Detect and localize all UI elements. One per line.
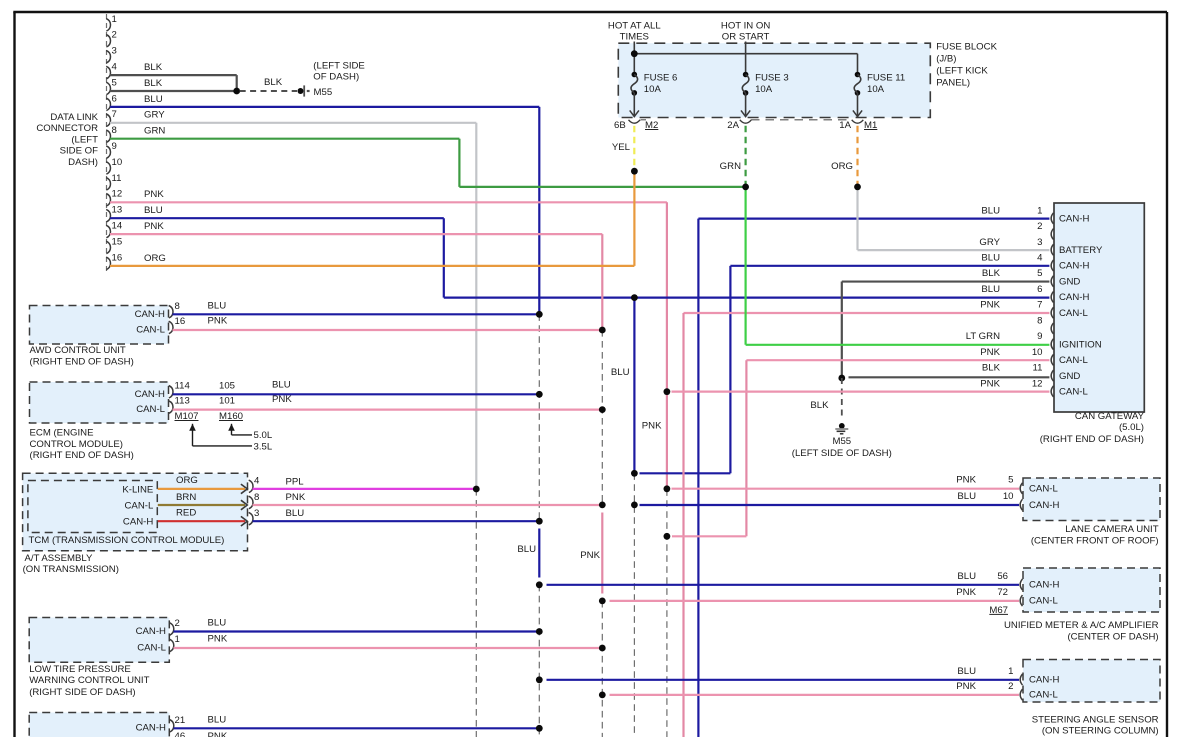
module box: LOW TIRE PRESSURE WARNING CONTROL UNIT (29, 618, 169, 663)
svg-text:PNK: PNK (956, 475, 976, 486)
label: LOW TIRE PRESSURE WARNING CONTROL UNIT (RIGHT SIDE OF DASH) (29, 664, 149, 698)
svg-text:1: 1 (1008, 666, 1013, 677)
svg-text:10: 10 (112, 157, 123, 168)
svg-text:113: 113 (175, 396, 190, 407)
svg-text:BLU: BLU (981, 284, 1000, 295)
svg-text:2: 2 (1037, 221, 1042, 232)
svg-text:CAN-L: CAN-L (1029, 690, 1058, 701)
svg-text:DATA LINK: DATA LINK (50, 112, 98, 123)
svg-text:10A: 10A (644, 84, 662, 95)
svg-text:1A: 1A (839, 120, 851, 131)
wire: feed from HOT AT ALL TIMES into fuse 6 (633, 42, 635, 75)
svg-text:LOW TIRE PRESSURE: LOW TIRE PRESSURE (29, 664, 131, 675)
steering pin arcs (1020, 674, 1022, 700)
unified meter wire color labels (956, 571, 976, 598)
DATA LINK CONNECTOR pin numbers 1-16 (112, 14, 123, 263)
svg-text:FUSE 3: FUSE 3 (755, 73, 789, 84)
svg-text:CAN-H: CAN-H (136, 626, 166, 637)
svg-text:11: 11 (112, 173, 122, 184)
wire: DLC pin 7 GRY horizontal (110, 122, 476, 124)
wire: TCM CAN-L BRN internal (158, 500, 248, 510)
svg-text:3: 3 (254, 508, 259, 519)
label: ORG (831, 161, 853, 172)
node: splice AWD CAN-H (536, 311, 543, 318)
svg-text:FUSE BLOCK: FUSE BLOCK (936, 41, 997, 52)
svg-text:DASH): DASH) (68, 157, 98, 168)
svg-text:5: 5 (112, 77, 117, 88)
wire: AWD CAN-H BLU (173, 313, 540, 315)
unified meter connector id M67 (989, 605, 1008, 616)
label: BLK (ground wire) (810, 400, 829, 411)
AWD pin labels (135, 309, 166, 336)
wire: low-tire CAN-L PNK (174, 647, 603, 649)
svg-text:CONTROL MODULE): CONTROL MODULE) (30, 439, 123, 450)
svg-text:PNK: PNK (208, 316, 228, 327)
wire: BLK vertical x=842 (841, 282, 843, 378)
label: FUSE BLOCK (J/B) (LEFT KICK PANEL) (936, 41, 997, 88)
svg-text:3: 3 (112, 46, 117, 57)
svg-text:(LEFT SIDE OF DASH): (LEFT SIDE OF DASH) (792, 448, 892, 459)
steering wire color labels (956, 666, 976, 692)
fuse block connector strip dashes (641, 119, 852, 121)
module box: TCM inner (28, 481, 157, 533)
svg-text:BLU: BLU (144, 205, 163, 216)
svg-text:(CENTER OF DASH): (CENTER OF DASH) (1067, 631, 1158, 642)
svg-text:FUSE 11: FUSE 11 (867, 73, 905, 84)
svg-text:PNK: PNK (144, 189, 164, 200)
module box: bottom module (clipped) (29, 713, 169, 737)
svg-text:4: 4 (254, 476, 260, 487)
wire: DLC pin 8 GRN horizontal (110, 138, 459, 140)
svg-text:PNK: PNK (980, 378, 1000, 389)
svg-text:PNK: PNK (286, 492, 306, 503)
wire: steering CAN-H BLU (547, 679, 1020, 681)
svg-text:4: 4 (112, 62, 118, 73)
label: UNIFIED METER & A/C AMPLIFIER (CENTER OF DASH) (1004, 620, 1159, 642)
svg-text:GND: GND (1059, 371, 1080, 382)
svg-text:BLK: BLK (144, 62, 163, 73)
steering pin labels (1029, 675, 1059, 701)
svg-text:M55: M55 (314, 87, 333, 98)
label: PNK (x=667 bus) (642, 420, 662, 431)
lane camera wire color labels (956, 475, 976, 502)
wire: GRY vertical x=476 (K-line) (475, 123, 477, 489)
ground symbol M55 (835, 423, 848, 434)
module box: AWD CONTROL UNIT (30, 306, 169, 345)
label: TCM (TRANSMISSION CONTROL MODULE) (29, 535, 225, 546)
svg-text:PNK: PNK (208, 634, 228, 645)
label: M55 (LEFT SIDE OF DASH) (792, 436, 892, 459)
svg-text:(RIGHT END OF DASH): (RIGHT END OF DASH) (30, 356, 134, 367)
svg-text:9: 9 (112, 141, 117, 152)
module box: LANE CAMERA UNIT (1023, 478, 1160, 521)
svg-text:RED: RED (176, 508, 196, 519)
node: splice ORG/GRY at (857.5,187) (854, 184, 861, 191)
svg-text:CAN-L: CAN-L (136, 325, 165, 336)
svg-text:4: 4 (1037, 253, 1043, 264)
svg-text:CAN-H: CAN-H (123, 516, 153, 527)
wire: BLK dashed to ground connector M55 (240, 90, 297, 92)
svg-text:10A: 10A (755, 84, 773, 95)
ECM pin numbers (175, 381, 236, 407)
svg-text:14: 14 (112, 221, 123, 232)
svg-text:5: 5 (1008, 475, 1013, 486)
svg-text:ORG: ORG (831, 161, 853, 172)
unified meter pin labels (1029, 580, 1059, 607)
node: splice TCM CAN-H (536, 518, 543, 525)
svg-text:A/T ASSEMBLY: A/T ASSEMBLY (25, 553, 93, 564)
node: junction at fuse block top rail (631, 50, 638, 57)
wire: ORG vertical x=634 up to fuse-6 splice (633, 171, 635, 266)
wire: BLU vertical x=444 (443, 218, 445, 297)
callout: 3.5L arrow to M107 (189, 424, 273, 453)
svg-text:(ON STEERING COLUMN): (ON STEERING COLUMN) (1042, 726, 1159, 737)
svg-text:(LEFT SIDE: (LEFT SIDE (313, 61, 365, 72)
node: splice steering CAN-H (536, 676, 543, 683)
wire: bottom module CAN-H BLU (174, 727, 540, 729)
svg-text:AWD CONTROL UNIT: AWD CONTROL UNIT (30, 345, 126, 356)
svg-text:CAN-L: CAN-L (136, 404, 165, 415)
callout: 5.0L arrow to M160 (228, 424, 273, 441)
svg-text:7: 7 (1037, 300, 1042, 311)
DATA LINK CONNECTOR pin cavity arcs 1-16 (106, 19, 110, 270)
label: YEL (612, 142, 631, 153)
svg-text:CAN-H: CAN-H (136, 723, 166, 734)
wire: BLU vertical x=730 (729, 266, 731, 473)
svg-text:SIDE OF: SIDE OF (60, 146, 99, 157)
svg-text:7: 7 (112, 109, 117, 120)
svg-text:BLK: BLK (264, 77, 283, 88)
svg-text:BLK: BLK (982, 268, 1001, 279)
svg-text:2A: 2A (727, 120, 739, 131)
bus dashes x=476 below K-line splice (475, 489, 477, 737)
svg-text:PNK: PNK (980, 300, 1000, 311)
svg-text:IGNITION: IGNITION (1059, 339, 1102, 350)
svg-text:BLK: BLK (982, 363, 1001, 374)
svg-text:BLU: BLU (957, 491, 976, 502)
wire: BLU segment on bus x=539 (TCM to meter) (538, 529, 540, 578)
wire: BLU vertical x=539 (pin6 down to AWD splice) (538, 107, 540, 314)
svg-text:ECM (ENGINE: ECM (ENGINE (30, 427, 94, 438)
label: HOT AT ALL TIMES (608, 21, 661, 43)
svg-text:BLU: BLU (208, 715, 227, 726)
label: BLU (x=634 bus) (611, 367, 630, 378)
A/T wire color labels (286, 476, 306, 519)
svg-text:GRN: GRN (720, 161, 741, 172)
CAN GATEWAY internal pin labels (1059, 214, 1103, 398)
wire: fuse block top rail to fuse 11 (634, 54, 857, 75)
module box: STEERING ANGLE SENSOR (1023, 660, 1160, 703)
wire: CAN GW pin9 LT GRN horizontal (IGNITION) (746, 344, 1050, 346)
svg-text:GND: GND (1059, 276, 1080, 287)
fuse block (J/B) dashed box (618, 43, 930, 117)
svg-text:12: 12 (1032, 378, 1043, 389)
svg-text:PNK: PNK (272, 394, 292, 405)
svg-text:2: 2 (175, 618, 180, 629)
fuse FUSE 6 10A (630, 72, 678, 117)
node: splice x=667 pin12 (664, 388, 671, 395)
wire: unified meter CAN-H BLU (547, 584, 1020, 586)
lane camera pin numbers (1003, 475, 1014, 502)
node: splice AWD CAN-L (599, 327, 606, 334)
svg-text:HOT AT ALL: HOT AT ALL (608, 21, 661, 32)
node: splice steering CAN-L (599, 692, 606, 699)
wire: YEL dashed from fuse 6 pin 6B (633, 126, 635, 169)
svg-text:6B: 6B (614, 120, 626, 131)
svg-text:(CENTER FRONT OF ROOF): (CENTER FRONT OF ROOF) (1031, 535, 1159, 546)
node: splice x=667 lane camera (664, 485, 671, 492)
svg-text:PNK: PNK (642, 420, 662, 431)
label: BRN (TCM) (176, 492, 196, 503)
svg-text:M160: M160 (219, 411, 243, 422)
svg-text:CAN GATEWAY: CAN GATEWAY (1075, 411, 1145, 422)
label: DATA LINK CONNECTOR (LEFT SIDE OF DASH) (36, 112, 98, 168)
wire: ECM CAN-H BLU (173, 393, 540, 395)
fuse FUSE 11 10A (853, 72, 905, 117)
wire: DLC pin 13 BLU horizontal (110, 217, 444, 219)
svg-text:PNK: PNK (144, 221, 164, 232)
svg-text:1: 1 (112, 14, 117, 25)
label: PNK (x=602 bus) (580, 550, 600, 561)
wire: TCM K-LINE ORG internal (158, 484, 248, 494)
label: BLU (x=539 bus) (517, 544, 536, 555)
svg-text:72: 72 (997, 587, 1008, 598)
svg-text:BLK: BLK (810, 400, 829, 411)
CAN GATEWAY wire color labels (966, 205, 1001, 389)
CAN GATEWAY pin cavity arcs 1-12 (1051, 213, 1053, 397)
svg-text:(RIGHT END OF DASH): (RIGHT END OF DASH) (1040, 434, 1144, 445)
bus dashes x=539 (538, 314, 540, 737)
node: splice unified meter CAN-L (599, 598, 606, 605)
wire: DLC pin 5 BLK to splice (110, 90, 237, 92)
node: BLK splice at (236.7,91.4) (233, 88, 240, 95)
fuse FUSE 3 10A (741, 72, 789, 117)
svg-text:CAN-H: CAN-H (1059, 214, 1089, 225)
wire: lane camera CAN-L PNK (672, 488, 1020, 490)
wire: low-tire CAN-H BLU (174, 630, 540, 632)
wire: CAN GW pin5 BLK horizontal (GND) (842, 280, 1050, 282)
svg-text:GRY: GRY (144, 110, 165, 121)
wire: TCM K-LINE PPL (253, 488, 477, 490)
AWD pin numbers (175, 301, 186, 327)
A/T pin numbers (254, 476, 260, 519)
svg-text:CAN-H: CAN-H (1029, 580, 1059, 591)
svg-text:BLU: BLU (957, 666, 976, 677)
svg-text:(LEFT: (LEFT (71, 134, 98, 145)
node: splice x=667 y=536 (664, 533, 671, 540)
svg-text:105: 105 (219, 381, 235, 392)
svg-text:13: 13 (112, 205, 123, 216)
svg-text:UNIFIED METER & A/C AMPLIFIER: UNIFIED METER & A/C AMPLIFIER (1004, 620, 1159, 631)
svg-text:56: 56 (997, 571, 1008, 582)
A/T pin arcs (249, 480, 253, 525)
svg-text:BATTERY: BATTERY (1059, 245, 1103, 256)
svg-text:CAN-L: CAN-L (1059, 308, 1088, 319)
DATA LINK CONNECTOR wire color labels (144, 62, 166, 264)
svg-text:BLU: BLU (144, 94, 163, 105)
svg-text:3: 3 (1037, 237, 1042, 248)
svg-text:8: 8 (175, 301, 180, 312)
svg-text:GRN: GRN (144, 126, 165, 137)
node: splice bottom CAN-H (536, 725, 543, 732)
wire: unified meter CAN-L PNK (610, 600, 1020, 602)
wire: lane camera CAN-H BLU (640, 504, 1020, 506)
unified meter pin arcs (1020, 579, 1022, 606)
CAN GATEWAY pin numbers (1032, 205, 1043, 389)
wire: GRN dashed from fuse 3 pin 2A (744, 126, 746, 185)
svg-text:(ON TRANSMISSION): (ON TRANSMISSION) (23, 564, 119, 575)
label: AWD CONTROL UNIT (RIGHT END OF DASH) (30, 345, 134, 368)
wire: GRN horizontal y=187 to fuse-3 splice (459, 186, 745, 188)
wire: PNK vertical x=602 upper (601, 234, 603, 330)
svg-text:WARNING CONTROL UNIT: WARNING CONTROL UNIT (29, 675, 149, 686)
lane camera pin labels (1029, 484, 1059, 511)
svg-text:M55: M55 (832, 436, 851, 447)
ECM pin labels (135, 389, 166, 415)
svg-text:11: 11 (1033, 363, 1043, 374)
label: pin 1A / connector M1 (839, 120, 877, 131)
label: (LEFT SIDE OF DASH) / M55 (top) (313, 61, 365, 98)
wire: TCM CAN-L PNK (253, 504, 603, 506)
label: RED (TCM) (176, 508, 196, 519)
svg-text:CAN-L: CAN-L (1059, 355, 1088, 366)
ECM pin arcs (169, 386, 173, 414)
svg-text:5: 5 (1037, 268, 1042, 279)
svg-text:5.0L: 5.0L (254, 430, 273, 441)
svg-text:PNK: PNK (980, 347, 1000, 358)
svg-text:CAN-H: CAN-H (135, 309, 165, 320)
svg-text:8: 8 (112, 125, 117, 136)
svg-text:CAN-L: CAN-L (1029, 484, 1058, 495)
wire: feed from HOT IN ON OR START into fuse 3 (745, 42, 747, 75)
connector cavity arcs under fuse block (629, 120, 864, 123)
label: STEERING ANGLE SENSOR (ON STEERING COLUMN) (1032, 714, 1159, 736)
wire: CAN GW pin1 BLU horizontal (698, 218, 1049, 220)
svg-text:BLU: BLU (208, 300, 227, 311)
wire: CAN GW pin12 PNK horizontal (672, 391, 1050, 393)
label: CAN GATEWAY (5.0L) (RIGHT END OF DASH) (1040, 411, 1145, 445)
ECM connector ids M107 M160 (175, 411, 244, 422)
module box: CAN GATEWAY (1054, 203, 1144, 412)
node: splice low-tire CAN-H (536, 628, 543, 635)
svg-text:(LEFT KICK: (LEFT KICK (936, 65, 988, 76)
svg-text:16: 16 (175, 316, 186, 327)
wire: DLC pin 6 BLU horizontal (110, 106, 539, 108)
unified meter pin numbers (997, 571, 1008, 598)
label: GRN (720, 161, 741, 172)
svg-text:TIMES: TIMES (620, 32, 649, 43)
wire: steering CAN-L PNK (610, 694, 1020, 696)
steering pin numbers (1008, 666, 1013, 692)
svg-text:ORG: ORG (144, 253, 166, 264)
node: splice K-line PPL/GRY (473, 486, 480, 493)
label: pin 6B / connector M2 (614, 120, 658, 131)
svg-text:8: 8 (1037, 315, 1042, 326)
bottom module pin arcs (170, 720, 174, 733)
bottom module pin labels (136, 723, 166, 734)
svg-text:6: 6 (112, 93, 117, 104)
connector: DATA LINK CONNECTOR dashed body line (106, 14, 108, 272)
svg-text:HOT IN ON: HOT IN ON (721, 21, 770, 32)
wire: BLU vertical x=698 (697, 219, 699, 737)
svg-text:STEERING ANGLE SENSOR: STEERING ANGLE SENSOR (1032, 714, 1159, 725)
svg-text:(5.0L): (5.0L) (1119, 422, 1144, 433)
wire: BLU horizontal y=297.6 to CAN gateway pin 6 (444, 297, 1050, 299)
svg-text:BLU: BLU (957, 571, 976, 582)
svg-text:LT GRN: LT GRN (966, 331, 1000, 342)
label: ECM (ENGINE CONTROL MODULE) (RIGHT END OF DASH) (30, 427, 134, 461)
svg-text:PNK: PNK (956, 587, 976, 598)
wire: PNK segment on bus x=602 (TCM to meter) (601, 513, 603, 594)
svg-text:OF DASH): OF DASH) (313, 72, 359, 83)
svg-text:BLU: BLU (611, 367, 630, 378)
svg-text:21: 21 (175, 715, 186, 726)
svg-text:(J/B): (J/B) (936, 53, 956, 64)
svg-text:BLK: BLK (144, 78, 163, 89)
label: A/T ASSEMBLY (ON TRANSMISSION) (23, 553, 119, 575)
svg-text:PNK: PNK (580, 550, 600, 561)
module box: ECM (30, 382, 169, 423)
ECM wire color labels (272, 380, 292, 406)
svg-text:M107: M107 (175, 411, 199, 422)
label: LANE CAMERA UNIT (CENTER FRONT OF ROOF) (1031, 524, 1159, 546)
node: splice ECM CAN-H (536, 391, 543, 398)
svg-text:CAN-H: CAN-H (1059, 292, 1089, 303)
svg-text:TCM (TRANSMISSION CONTROL MODU: TCM (TRANSMISSION CONTROL MODULE) (29, 535, 225, 546)
wire: CAN GW pin10 PNK horizontal (746, 359, 1049, 361)
svg-text:BLU: BLU (981, 205, 1000, 216)
low-tire pin labels (136, 626, 167, 654)
svg-text:CAN-H: CAN-H (1029, 500, 1059, 511)
wire: CAN GW pin4 BLU horizontal (730, 265, 1049, 267)
svg-text:LANE CAMERA UNIT: LANE CAMERA UNIT (1065, 524, 1158, 535)
svg-text:2: 2 (1008, 681, 1013, 692)
node: splice x=634 pin6 (631, 294, 638, 301)
svg-text:10: 10 (1032, 347, 1043, 358)
lane camera pin arcs (1020, 483, 1022, 510)
svg-text:CAN-L: CAN-L (125, 500, 154, 511)
svg-text:K-LINE: K-LINE (122, 484, 153, 495)
label: pin 2A (727, 120, 739, 131)
wire: PNK horizontal y=536 to splice (672, 535, 746, 537)
wire: ECM CAN-L PNK (173, 409, 603, 411)
svg-text:BLU: BLU (981, 253, 1000, 264)
node: splice ECM CAN-L (599, 406, 606, 413)
svg-text:CONNECTOR: CONNECTOR (36, 123, 98, 134)
svg-text:CAN-L: CAN-L (137, 643, 166, 654)
connector symbol M55 (top) (298, 85, 310, 96)
svg-text:114: 114 (175, 381, 191, 392)
wire: ORG dashed from fuse 11 pin 1A (856, 126, 858, 185)
wire: LT GRN vertical x=746 (744, 187, 746, 345)
wire: DLC pin 12 PNK horizontal (110, 201, 667, 203)
wire: AWD CAN-L PNK (173, 329, 603, 331)
wire: GRY vertical from M1 splice (856, 187, 858, 250)
svg-text:BLU: BLU (286, 508, 305, 519)
AWD wire color labels (208, 300, 228, 326)
low-tire pin numbers (175, 618, 180, 645)
svg-text:10A: 10A (867, 84, 885, 95)
wire: CAN GW pin11 BLK horizontal (GND) (849, 376, 1050, 378)
wire: DLC pin 14 PNK horizontal (110, 233, 602, 235)
node: splice unified meter CAN-H (536, 581, 543, 588)
bus dashes x=634 (633, 473, 635, 737)
svg-text:1: 1 (1037, 205, 1042, 216)
bus dashes x=602 (601, 330, 603, 737)
svg-text:12: 12 (112, 189, 123, 200)
svg-text:46: 46 (175, 731, 186, 737)
svg-text:PNK: PNK (956, 681, 976, 692)
